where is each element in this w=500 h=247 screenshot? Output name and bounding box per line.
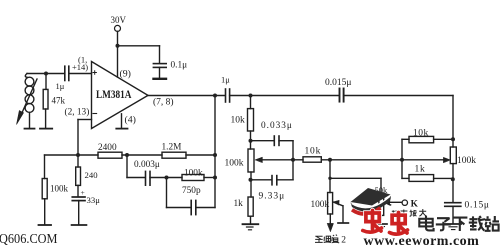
svg-text:240: 240: [85, 170, 99, 180]
svg-text:9.33μ: 9.33μ: [259, 192, 286, 202]
svg-text:1μ: 1μ: [221, 74, 230, 84]
svg-text:30V: 30V: [111, 15, 127, 25]
svg-text:(9): (9): [120, 69, 131, 80]
svg-text:47k: 47k: [52, 96, 66, 106]
svg-text:0.003μ: 0.003μ: [134, 160, 160, 170]
svg-text:100k: 100k: [225, 159, 244, 169]
svg-text:Q606.COM: Q606.COM: [0, 232, 58, 247]
svg-text:100k: 100k: [457, 156, 476, 166]
svg-text:10k: 10k: [413, 129, 429, 139]
svg-text:10k: 10k: [231, 116, 246, 126]
svg-text:750p: 750p: [182, 186, 201, 196]
svg-text:LM381A: LM381A: [96, 89, 132, 101]
svg-text:(4): (4): [125, 115, 136, 126]
svg-text:100k: 100k: [50, 184, 69, 194]
svg-text:0.15μ: 0.15μ: [465, 200, 490, 210]
svg-text:(2, 13): (2, 13): [65, 107, 90, 118]
svg-text:2400: 2400: [98, 143, 117, 153]
svg-text:1.2M: 1.2M: [162, 143, 182, 153]
svg-text:0.015μ: 0.015μ: [325, 78, 351, 88]
svg-text:0.033μ: 0.033μ: [261, 121, 293, 131]
svg-text:(7, 8): (7, 8): [153, 97, 174, 108]
svg-text:+: +: [81, 188, 85, 197]
svg-text:+14): +14): [72, 62, 88, 72]
svg-text:K: K: [411, 199, 419, 209]
svg-text:0.1μ: 0.1μ: [171, 61, 188, 71]
svg-text:10k: 10k: [305, 147, 322, 157]
svg-text:1k: 1k: [415, 165, 426, 175]
svg-text:www.eeworm.com: www.eeworm.com: [364, 234, 480, 247]
svg-text:1k: 1k: [234, 199, 244, 209]
svg-text:100k: 100k: [311, 200, 330, 210]
svg-text:100k: 100k: [184, 169, 203, 179]
svg-text:33μ: 33μ: [87, 195, 101, 205]
svg-text:2: 2: [341, 236, 346, 246]
svg-text:1μ: 1μ: [56, 81, 65, 91]
